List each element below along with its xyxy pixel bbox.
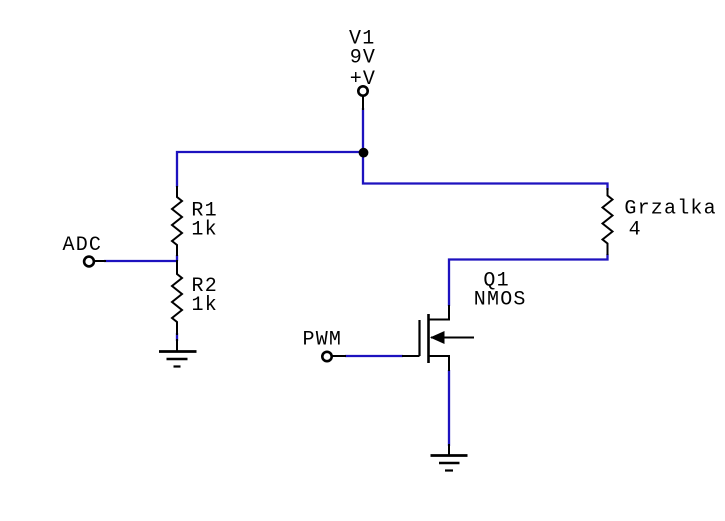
svg-text:ADC: ADC — [63, 234, 103, 257]
svg-text:4: 4 — [629, 219, 642, 242]
svg-text:1k: 1k — [191, 218, 217, 241]
svg-text:PWM: PWM — [303, 328, 343, 351]
svg-text:Grzalka: Grzalka — [624, 197, 716, 220]
svg-text:1k: 1k — [192, 294, 218, 317]
svg-text:9V: 9V — [350, 46, 376, 69]
svg-text:NMOS: NMOS — [474, 289, 527, 312]
svg-text:+V: +V — [350, 68, 376, 91]
